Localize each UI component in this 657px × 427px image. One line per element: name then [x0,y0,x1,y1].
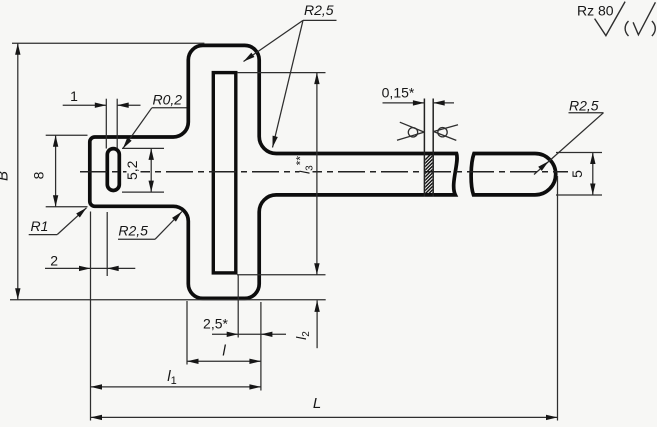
svg-text:R2,5: R2,5 [304,2,334,18]
svg-text:R2,5: R2,5 [569,98,599,114]
dimension l [187,301,261,365]
leader R2,5 lower-left [118,210,184,240]
surface finish note Rz 80 with check symbol [577,2,625,36]
svg-text:2,5*: 2,5* [203,316,228,332]
svg-text:5,2: 5,2 [124,160,140,180]
svg-text:5: 5 [569,170,585,178]
dimension 8 [46,135,88,207]
svg-text:2: 2 [50,252,58,268]
svg-text:Rz 80: Rz 80 [577,3,614,19]
svg-text:0,15*: 0,15* [382,84,415,100]
leader R2,5 right [534,98,604,175]
leader R0,2 [121,91,187,150]
dimension 0,15* [383,102,455,104]
svg-text:L: L [313,395,321,412]
leader R2,5 top (two arrows) [242,2,337,148]
part outline: shaft piece 2 with rounded nose [471,154,556,195]
dimension l3** [237,73,326,275]
dimension 2,5* [212,275,286,391]
centerline [80,171,568,173]
svg-text:1: 1 [70,88,78,104]
dimension B [12,43,204,300]
svg-text:8: 8 [31,171,47,179]
dimension L [91,176,558,421]
part outline: head, left arm, shaft piece 1 [90,45,457,298]
small capsule slot in left arm [107,149,119,191]
hatched band 0,15 [388,99,473,198]
surface symbol right of band [434,125,459,141]
parenthetical check symbol [625,2,655,36]
svg-text:R2,5: R2,5 [118,223,148,239]
dimension 2 [45,212,135,421]
svg-text:B: B [0,171,12,181]
surface symbol left of band [397,122,424,140]
svg-text:R1: R1 [31,218,49,234]
inner slot of head [213,73,236,273]
dimension 1 [63,99,141,149]
dimension l2 (half) [293,300,320,348]
dimension 5,2 [122,148,164,192]
long extension line at head bottom (B / l2 reference) [10,299,326,301]
dimension 5 (right end) [556,153,602,196]
leader R1 [29,206,89,235]
svg-text:R0,2: R0,2 [153,91,183,107]
dimension l1 [91,368,261,390]
